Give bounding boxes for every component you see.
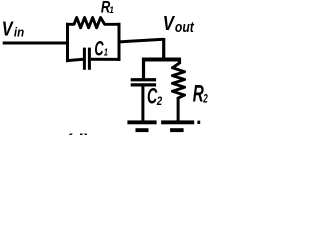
svg-text:in: in — [14, 24, 24, 39]
wire: parallel block right vertical — [118, 24, 121, 59]
wire: R2 upper stub — [178, 58, 181, 64]
wire: Vout drop to rail — [162, 38, 165, 60]
svg-text:C: C — [94, 37, 104, 60]
node Vout label — [163, 12, 195, 36]
svg-text:(d): (d) — [65, 132, 89, 135]
svg-text:2: 2 — [203, 91, 208, 105]
label C2 — [147, 84, 162, 109]
svg-text:1: 1 — [109, 5, 114, 16]
svg-text:V: V — [2, 17, 15, 40]
resistor R2 — [172, 63, 184, 98]
svg-text:1: 1 — [104, 48, 109, 59]
capacitor C2 — [131, 80, 156, 85]
svg-text:out: out — [175, 19, 195, 36]
node Vin label — [2, 17, 24, 40]
wire: bottom branch left lead — [66, 59, 83, 61]
ground (R2) — [161, 120, 200, 132]
wire: Vout horizontal lead — [118, 39, 164, 42]
label C1 — [94, 37, 108, 60]
wire: parallel block left vertical — [66, 24, 69, 60]
svg-text:2: 2 — [156, 94, 162, 108]
ground (C2) — [127, 120, 156, 132]
resistor R1 — [66, 18, 121, 28]
wire: C2 upper lead — [142, 58, 145, 78]
wire: C2 lower lead — [141, 87, 144, 121]
wire: bottom branch right lead — [91, 58, 121, 61]
wire: top rail of C2 and R2 — [142, 58, 181, 62]
capacitor C1 — [84, 48, 89, 70]
wire: R2 lower lead — [177, 97, 180, 121]
label R2 — [193, 81, 208, 108]
wire: Vin input lead — [3, 42, 68, 45]
label R1 — [101, 0, 114, 16]
